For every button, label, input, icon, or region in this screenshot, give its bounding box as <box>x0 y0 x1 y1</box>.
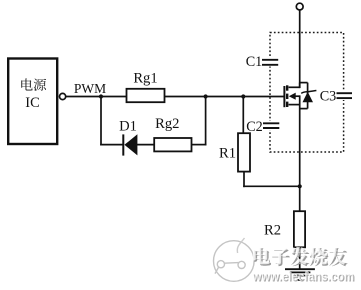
svg-text:R1: R1 <box>219 145 236 161</box>
svg-text:R2: R2 <box>264 222 281 238</box>
svg-text:Rg1: Rg1 <box>133 70 157 86</box>
svg-text:C3: C3 <box>320 89 337 105</box>
svg-text:www.elecfans.com: www.elecfans.com <box>252 270 354 284</box>
svg-text:C1: C1 <box>246 54 263 70</box>
svg-text:C2: C2 <box>246 119 263 135</box>
svg-text:IC: IC <box>25 95 40 111</box>
svg-text:Rg2: Rg2 <box>155 116 179 132</box>
svg-text:PWM: PWM <box>74 81 106 96</box>
svg-text:D1: D1 <box>119 118 137 134</box>
